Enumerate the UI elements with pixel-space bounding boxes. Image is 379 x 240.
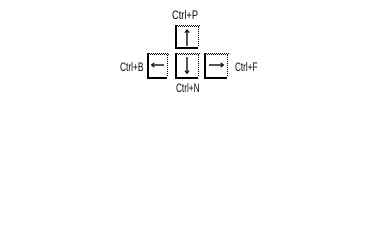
arrow up	[185, 30, 189, 46]
svg-text:Ctrl+B: Ctrl+B	[120, 62, 144, 74]
arrow left	[151, 63, 164, 67]
key box right	[204, 53, 229, 79]
svg-text:Ctrl+N: Ctrl+N	[176, 83, 200, 95]
key box up	[175, 25, 200, 49]
svg-text:Ctrl+P: Ctrl+P	[172, 10, 198, 22]
key box down	[175, 53, 200, 79]
arrow down	[185, 57, 189, 74]
svg-text:Ctrl+F: Ctrl+F	[235, 62, 258, 74]
key box left	[147, 53, 169, 79]
arrow right	[209, 63, 224, 67]
